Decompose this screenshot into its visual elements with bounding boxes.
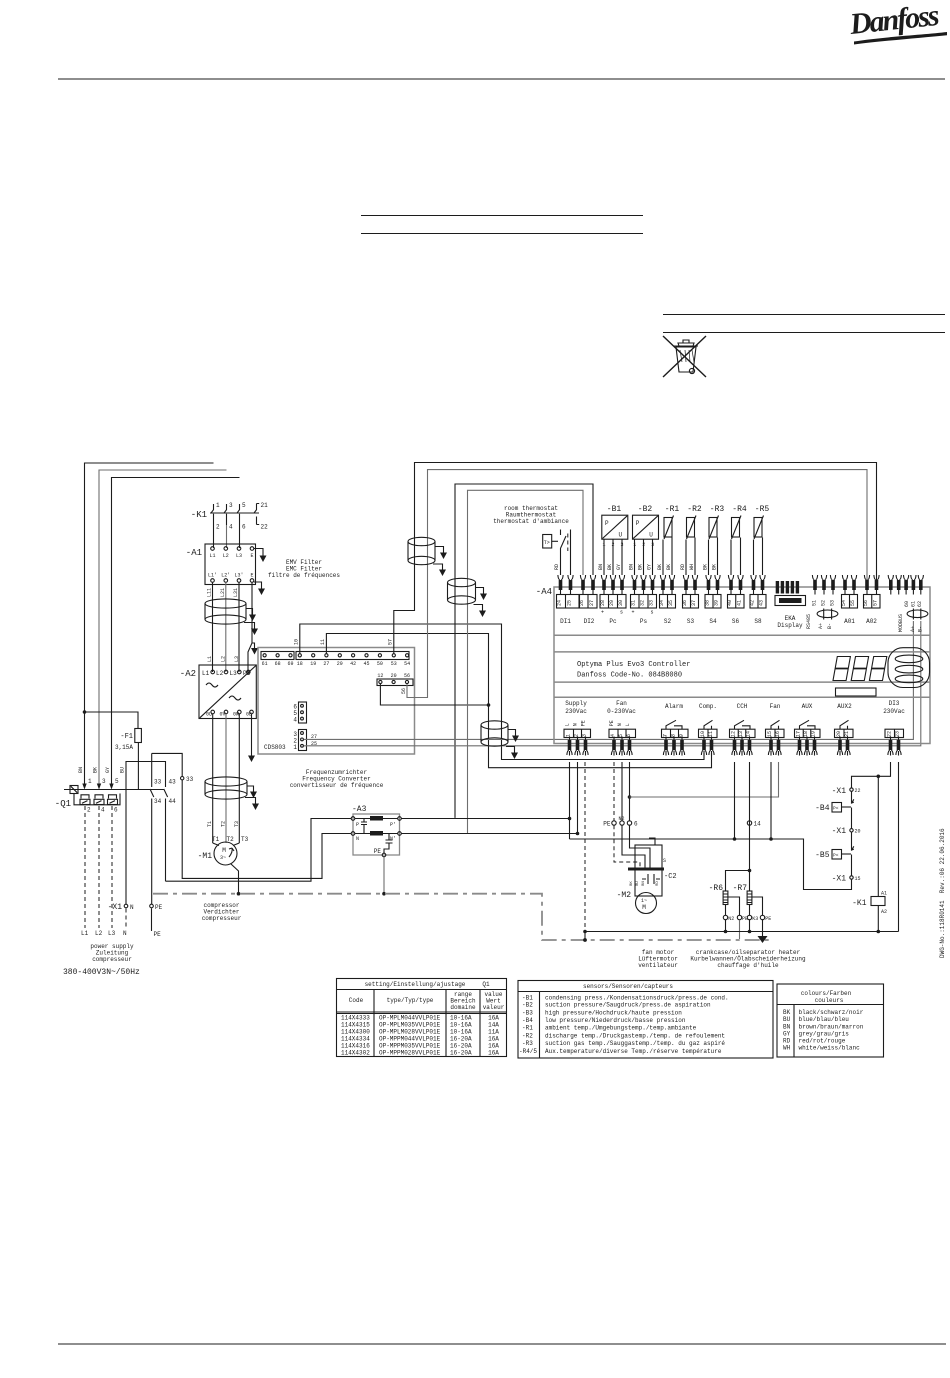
svg-text:-R1: -R1: [665, 505, 680, 514]
heater R7: [733, 884, 759, 933]
svg-text:Alarm: Alarm: [665, 703, 683, 710]
svg-text:60: 60: [904, 601, 910, 607]
svg-text:0V: 0V: [220, 712, 226, 718]
AUX relay terminals 17/18/19: [795, 703, 821, 756]
svg-text:114X4302: 114X4302: [341, 1050, 370, 1057]
svg-text:-B1: -B1: [522, 994, 533, 1001]
svg-text:S3: S3: [687, 618, 695, 625]
svg-text:-A1: -A1: [186, 548, 202, 558]
S4 terminals 38/39: [706, 575, 711, 595]
svg-text:type/Typ/type: type/Typ/type: [387, 997, 434, 1004]
svg-text:WH: WH: [689, 564, 695, 570]
toroid choke 3 (fan supply): [481, 721, 508, 746]
svg-text:N2: N2: [619, 816, 625, 822]
svg-text:21: 21: [844, 731, 850, 737]
wire to R6: [726, 871, 750, 892]
svg-text:51: 51: [812, 600, 818, 606]
svg-text:N: N: [123, 930, 127, 937]
svg-text:16: 16: [775, 731, 781, 737]
svg-text:DI3: DI3: [889, 700, 900, 707]
svg-text:15: 15: [855, 876, 861, 882]
Pc terminals 28/29/30: [601, 575, 606, 595]
top rule: [58, 78, 945, 80]
svg-text:25: 25: [311, 741, 317, 747]
svg-text:L1: L1: [209, 553, 215, 559]
svg-text:BN: BN: [629, 564, 635, 570]
Supply 230Vac terminals 1/2/3: [564, 700, 591, 756]
ground at A1 E top: [254, 549, 263, 553]
DI3 230Vac terminals 22/23: [883, 700, 905, 756]
svg-text:-B4: -B4: [522, 1017, 533, 1024]
svg-text:DWG-No.:118R0141 Rev.:06 22.0: DWG-No.:118R0141 Rev.:06 22.06.2016: [939, 828, 946, 958]
svg-text:s: s: [651, 610, 654, 616]
svg-text:114X4333: 114X4333: [341, 1015, 370, 1022]
svg-text:11A: 11A: [488, 1029, 499, 1036]
neutral rail bottom: [585, 931, 899, 933]
thermostat contact: [561, 530, 567, 557]
svg-text:29: 29: [609, 600, 615, 606]
svg-text:-B5: -B5: [815, 851, 830, 860]
motor earth wire to boundary: [231, 864, 239, 894]
svg-text:56: 56: [404, 673, 410, 679]
toroid choke 1: [408, 537, 435, 564]
svg-text:BK: BK: [630, 881, 634, 886]
svg-text:12: 12: [731, 731, 737, 737]
S3 terminals 36/37: [683, 575, 688, 595]
svg-text:BK: BK: [638, 564, 644, 570]
svg-text:61: 61: [262, 661, 268, 667]
svg-text:s: s: [620, 610, 623, 616]
svg-text:BU: BU: [783, 1016, 791, 1023]
svg-text:23: 23: [895, 731, 901, 737]
svg-text:PE: PE: [765, 916, 771, 922]
svg-text:BN: BN: [598, 564, 604, 570]
svg-text:A1: A1: [881, 891, 887, 897]
svg-text:16A: 16A: [488, 1036, 499, 1043]
svg-text:M: M: [222, 847, 226, 854]
svg-text:38: 38: [705, 600, 711, 606]
svg-text:16-20A: 16-20A: [450, 1043, 472, 1050]
title lines middle: [361, 216, 643, 234]
svg-text:35: 35: [668, 600, 674, 606]
svg-text:BK: BK: [666, 564, 672, 570]
wire CCH14 down through node 14: [749, 762, 751, 891]
svg-text:Supply: Supply: [565, 700, 587, 707]
wire L3 GY top: [112, 478, 240, 786]
S6 terminals 40/41: [728, 575, 733, 595]
svg-text:thermostat d'ambiance: thermostat d'ambiance: [493, 518, 569, 525]
wire aux44 to A3 P: [166, 819, 352, 882]
svg-text:28: 28: [600, 600, 606, 606]
svg-text:black/schwarz/noir: black/schwarz/noir: [799, 1009, 864, 1016]
wire L1 BN top: [85, 463, 214, 785]
svg-text:condensing press./Kondensation: condensing press./Kondensationsdruck/pre…: [545, 994, 729, 1001]
svg-text:discharge temp./Druckgastemp./: discharge temp./Druckgastemp./temp. de r…: [545, 1033, 725, 1040]
svg-text:L1: L1: [202, 670, 210, 677]
svg-text:BN: BN: [783, 1023, 791, 1030]
svg-text:A02: A02: [866, 618, 877, 625]
svg-text:red/rot/rouge: red/rot/rouge: [799, 1038, 846, 1045]
svg-text:P: P: [636, 520, 640, 527]
contactor Q1: [55, 778, 165, 814]
svg-text:OP-MPPM044VVLP01E: OP-MPPM044VVLP01E: [379, 1036, 441, 1043]
fuse F1: [135, 729, 142, 743]
terminal bar: [628, 868, 664, 871]
svg-text:Danfoss Code-No. 084B8080: Danfoss Code-No. 084B8080: [577, 672, 682, 680]
svg-text:Pc: Pc: [609, 618, 617, 625]
svg-text:DI2: DI2: [584, 618, 595, 625]
svg-text:low pressure/Niederdruck/basse: low pressure/Niederdruck/basse pression: [545, 1017, 686, 1024]
svg-text:setting/Einstellung/ajustage: setting/Einstellung/ajustage: [365, 981, 466, 988]
wire fan16 relay to fan L: [630, 762, 779, 797]
svg-text:69: 69: [287, 661, 293, 667]
svg-text:-X1: -X1: [832, 827, 847, 836]
svg-text:4: 4: [293, 717, 297, 724]
svg-text:Fan: Fan: [770, 703, 781, 710]
contactor coil K1: [877, 776, 879, 896]
svg-text:BK: BK: [703, 564, 709, 570]
svg-text:OP-MPPM035VVLP01E: OP-MPPM035VVLP01E: [379, 1043, 441, 1050]
svg-text:0W: 0W: [233, 712, 239, 718]
svg-text:Code: Code: [349, 997, 364, 1004]
A02 terminals 56/57: [864, 575, 869, 595]
svg-text:-R6: -R6: [709, 884, 724, 893]
svg-text:GY: GY: [647, 564, 653, 570]
wires into motor box: [614, 825, 640, 868]
svg-text:37: 37: [691, 600, 697, 606]
svg-text:L2': L2': [221, 573, 230, 579]
svg-text:-C2: -C2: [664, 873, 677, 881]
svg-text:-R3: -R3: [710, 505, 725, 514]
svg-text:E: E: [250, 573, 253, 579]
svg-text:14: 14: [754, 821, 762, 828]
pressure switch B5: [852, 832, 854, 876]
svg-text:11: 11: [320, 639, 326, 645]
svg-text:colours/Farben: colours/Farben: [801, 990, 852, 997]
svg-text:BN: BN: [78, 767, 84, 773]
svg-text:4: 4: [101, 807, 105, 814]
svg-text:-M2: -M2: [617, 891, 632, 900]
Fan relay terminals 15/16: [766, 703, 785, 756]
connector 6/5/4: [299, 702, 307, 723]
svg-text:3~: 3~: [220, 855, 226, 861]
svg-text:P: P: [356, 822, 359, 828]
svg-text:L2: L2: [95, 930, 103, 937]
svg-text:PE: PE: [374, 848, 382, 855]
WEEE crossed-out bin icon: [663, 336, 706, 377]
wire L2 BK top: [99, 470, 227, 785]
terminal X1:20: [850, 829, 853, 832]
svg-text:L2: L2: [216, 670, 224, 677]
svg-text:10: 10: [294, 639, 300, 645]
svg-text:39: 39: [714, 600, 720, 606]
svg-text:RD: RD: [656, 881, 660, 886]
svg-text:1: 1: [566, 734, 572, 737]
svg-text:68: 68: [275, 661, 281, 667]
wire fan15 down: [770, 762, 772, 839]
dashed feeders to mains: [84, 806, 86, 928]
svg-text:19: 19: [811, 731, 817, 737]
capacitor C2: [648, 874, 654, 884]
svg-text:34: 34: [154, 798, 162, 805]
wire CCH12 down: [734, 762, 736, 839]
heater feed rail: [570, 839, 852, 890]
svg-text:54: 54: [841, 600, 847, 606]
svg-text:high pressure/Hochdruck/haute: high pressure/Hochdruck/haute pression: [545, 1010, 682, 1017]
svg-text:380-400V3N~/50Hz: 380-400V3N~/50Hz: [63, 968, 140, 977]
svg-text:L31: L31: [233, 588, 239, 597]
wire CDS-12 junction: [380, 684, 488, 705]
svg-text:PE: PE: [603, 821, 611, 828]
svg-text:A+: A+: [910, 626, 916, 632]
ground at A1 E bottom: [254, 582, 262, 585]
svg-text:S4: S4: [709, 618, 717, 625]
wire CDS-1 modbus B-: [304, 621, 921, 746]
node 33 circle to aux33: [152, 753, 183, 776]
heater R6: [709, 884, 735, 933]
svg-text:T3: T3: [234, 821, 240, 827]
svg-text:54: 54: [404, 661, 410, 667]
svg-text:2: 2: [574, 734, 580, 737]
svg-text:18: 18: [803, 731, 809, 737]
wire F1 to N/aux rail: [137, 743, 139, 790]
wire DI3-22 down: [852, 762, 891, 788]
svg-text:26: 26: [579, 600, 585, 606]
svg-text:15: 15: [767, 731, 773, 737]
svg-text:16-20A: 16-20A: [450, 1050, 472, 1057]
svg-text:55: 55: [850, 600, 856, 606]
svg-text:T>: T>: [544, 540, 550, 546]
svg-text:compresseur: compresseur: [92, 956, 132, 963]
svg-text:couleurs: couleurs: [815, 997, 844, 1004]
svg-text:N: N: [617, 723, 623, 726]
svg-text:-K1: -K1: [191, 510, 207, 520]
svg-text:Display: Display: [777, 622, 803, 629]
svg-text:Optyma Plus Evo3 Controller: Optyma Plus Evo3 Controller: [577, 661, 690, 669]
svg-text:RD: RD: [554, 564, 560, 570]
svg-text:N: N: [130, 904, 134, 911]
line choke L11/L21/L31 (toroid): [205, 599, 246, 624]
A3 PE to boundary: [383, 857, 385, 894]
wire A3 N' to supply N: [402, 833, 578, 835]
svg-text:0-230Vac: 0-230Vac: [607, 708, 636, 715]
svg-text:S8: S8: [754, 618, 762, 625]
svg-text:42: 42: [750, 600, 756, 606]
wire 11 CDS-27 to Comp.11: [326, 634, 711, 768]
S2 terminals 34/35: [660, 575, 665, 595]
terminal X1:N: [124, 904, 128, 908]
svg-text:5: 5: [242, 502, 246, 509]
svg-text:convertisseur de fréquence: convertisseur de fréquence: [290, 782, 384, 789]
svg-text:BK: BK: [93, 767, 99, 773]
pressure switch B4: [852, 791, 854, 828]
svg-text:10-16A: 10-16A: [450, 1015, 472, 1022]
svg-text:56: 56: [401, 688, 407, 694]
svg-text:BK: BK: [607, 564, 613, 570]
svg-text:M: M: [642, 904, 646, 911]
svg-text:29: 29: [337, 661, 343, 667]
svg-text:RS485: RS485: [806, 614, 812, 629]
svg-text:3: 3: [582, 734, 588, 737]
svg-text:blue/blau/bleu: blue/blau/bleu: [799, 1016, 850, 1023]
svg-text:40: 40: [727, 600, 733, 606]
svg-text:6: 6: [242, 524, 246, 531]
svg-text:L: L: [565, 723, 571, 726]
svg-text:L21: L21: [220, 588, 226, 597]
svg-text:N2: N2: [728, 916, 734, 922]
0E ground: [251, 714, 253, 752]
svg-text:10: 10: [700, 731, 706, 737]
svg-text:53: 53: [830, 600, 836, 606]
svg-text:41: 41: [737, 600, 743, 606]
svg-text:P: P: [605, 520, 609, 527]
svg-text:valeur: valeur: [483, 1004, 505, 1011]
right note lines: [663, 315, 945, 333]
wire fan L down: [629, 762, 631, 821]
A01 terminals 54/55: [842, 575, 847, 595]
svg-text:57: 57: [388, 639, 394, 645]
Danfoss logo: [847, 0, 947, 44]
svg-text:GY: GY: [783, 1031, 791, 1038]
R7 PE tap to earth: [752, 897, 763, 915]
svg-text:N: N: [573, 723, 579, 726]
svg-text:21: 21: [261, 502, 269, 509]
svg-text:1: 1: [88, 778, 92, 785]
svg-text:-R5: -R5: [755, 505, 770, 514]
wire fan N down: [621, 762, 623, 821]
svg-text:L3: L3: [230, 670, 238, 677]
svg-text:25: 25: [567, 600, 573, 606]
svg-text:L3: L3: [236, 553, 242, 559]
svg-text:4: 4: [229, 524, 233, 531]
svg-text:22: 22: [261, 524, 269, 531]
motor terminal box: [635, 845, 662, 896]
svg-text:16A: 16A: [488, 1050, 499, 1057]
svg-text:ambient temp./Umgebungstemp./t: ambient temp./Umgebungstemp./temp.ambian…: [545, 1025, 697, 1032]
S8 terminals 42/43: [751, 575, 756, 595]
svg-text:30: 30: [618, 600, 624, 606]
svg-text:-R4/5: -R4/5: [519, 1048, 537, 1055]
svg-text:57: 57: [873, 600, 879, 606]
svg-text:PE: PE: [154, 931, 162, 938]
wire DI2-27: [455, 484, 593, 818]
svg-text:-X1: -X1: [832, 875, 847, 884]
svg-text:17: 17: [796, 731, 802, 737]
svg-text:20: 20: [855, 829, 861, 835]
svg-text:6: 6: [114, 807, 118, 814]
wire supply N down: [577, 762, 579, 834]
terminal PE: [150, 904, 154, 908]
wire A3 P' to supply L: [402, 818, 570, 820]
EKA display connector: [776, 581, 779, 594]
wire to fuse F1: [85, 712, 139, 729]
svg-text:CCH: CCH: [737, 703, 748, 710]
EKA display 7-segment: [833, 657, 887, 681]
svg-text:P<: P<: [833, 806, 839, 812]
wire CDS-2 modbus A+: [304, 621, 913, 739]
terminal box dividers: [566, 595, 872, 609]
svg-text:114X4316: 114X4316: [341, 1043, 370, 1050]
EMC filter A1: [186, 544, 256, 585]
wire fan PE dashed: [613, 762, 615, 821]
svg-text:0U: 0U: [206, 712, 212, 718]
svg-text:domaine: domaine: [450, 1004, 476, 1011]
svg-text:sensors/Sensoren/capteurs: sensors/Sensoren/capteurs: [583, 983, 673, 990]
svg-text:P': P': [390, 822, 396, 828]
display window: [836, 688, 877, 696]
svg-text:PE: PE: [155, 904, 163, 911]
svg-text:Ps: Ps: [640, 618, 648, 625]
choke ground hooks: [246, 609, 253, 612]
wire DI2-26: [468, 490, 584, 833]
svg-text:ventilateur: ventilateur: [638, 962, 678, 969]
wire supply L down: [569, 762, 571, 839]
svg-text:27: 27: [311, 734, 317, 740]
svg-text:36: 36: [682, 600, 688, 606]
svg-text:OP-MPLM035VVLP01E: OP-MPLM035VVLP01E: [379, 1022, 441, 1029]
PE wire from A1 E' to A2 with ground stub: [252, 582, 255, 644]
Comp. relay terminals 10/11: [699, 703, 718, 756]
svg-text:-R2: -R2: [687, 505, 702, 514]
svg-text:A01: A01: [844, 618, 855, 625]
svg-text:24: 24: [557, 600, 563, 606]
frequency converter A2: [180, 665, 257, 719]
Q1 aux contact 33/34: [150, 753, 154, 904]
svg-text:61: 61: [910, 601, 916, 607]
svg-text:L3: L3: [108, 930, 116, 937]
svg-text:27: 27: [589, 600, 595, 606]
svg-text:N': N': [390, 836, 396, 842]
wires A1 to choke: [212, 582, 214, 672]
Q1 aux contact 43/44: [164, 789, 168, 881]
svg-text:1: 1: [293, 744, 297, 751]
svg-text:RD: RD: [680, 564, 686, 570]
svg-text:33: 33: [154, 779, 162, 786]
svg-text:-X1: -X1: [108, 903, 123, 912]
svg-text:suction pressure/Saugdruck/pre: suction pressure/Saugdruck/press.de aspi…: [545, 1002, 711, 1009]
svg-text:12: 12: [377, 673, 383, 679]
svg-text:L2: L2: [221, 656, 227, 662]
svg-text:PE: PE: [581, 720, 587, 726]
svg-text:-K1: -K1: [852, 899, 867, 908]
svg-text:L2: L2: [223, 553, 229, 559]
svg-text:56: 56: [863, 600, 869, 606]
svg-text:5: 5: [115, 778, 119, 785]
svg-text:114X4315: 114X4315: [341, 1022, 370, 1029]
svg-text:U: U: [619, 532, 623, 539]
svg-text:-A4: -A4: [536, 587, 552, 597]
display buttons: [888, 648, 930, 688]
svg-text:OP-MPLM028VVLP01E: OP-MPLM028VVLP01E: [379, 1029, 441, 1036]
svg-text:WH: WH: [783, 1045, 791, 1052]
svg-text:E: E: [250, 553, 253, 559]
svg-text:S: S: [663, 858, 666, 864]
fan connector circles PE/N/6: [612, 821, 616, 825]
svg-text:3: 3: [229, 502, 233, 509]
svg-text:230Vac: 230Vac: [565, 708, 587, 715]
svg-text:L: L: [625, 723, 631, 726]
svg-text:CDS803: CDS803: [264, 744, 286, 751]
bottom rule: [58, 1343, 946, 1345]
svg-text:filtre de fréquences: filtre de fréquences: [268, 572, 340, 579]
svg-text:N: N: [356, 836, 359, 842]
svg-text:53: 53: [391, 661, 397, 667]
svg-text:PE: PE: [742, 916, 748, 922]
svg-text:3: 3: [102, 778, 106, 785]
svg-text:6: 6: [634, 821, 638, 828]
svg-text:14A: 14A: [488, 1022, 499, 1029]
svg-text:-B4: -B4: [815, 804, 830, 813]
